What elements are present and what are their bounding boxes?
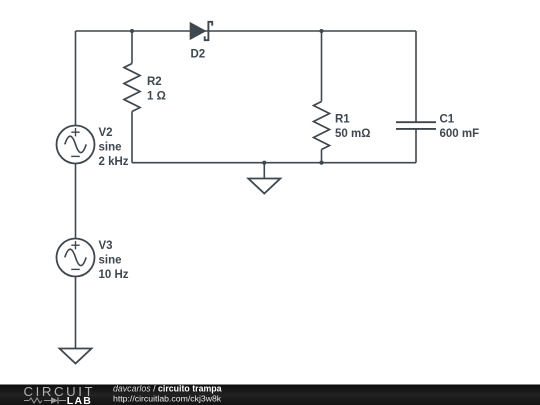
svg-text:http://circuitlab.com/ckj3w8k: http://circuitlab.com/ckj3w8k <box>113 394 222 404</box>
wire C1 top lead <box>415 31 417 122</box>
svg-text:600 mF: 600 mF <box>440 128 480 140</box>
svg-text:V2: V2 <box>99 127 113 139</box>
footer logo wire <box>24 400 66 402</box>
ground symbol on middle rail <box>248 179 280 194</box>
V2 sine symbol <box>65 136 86 152</box>
svg-text:50 mΩ: 50 mΩ <box>335 128 370 140</box>
svg-text:V3: V3 <box>99 240 113 252</box>
wire top rail from V2 branch to C1 branch <box>76 30 417 32</box>
svg-text:2 kHz: 2 kHz <box>99 156 129 168</box>
svg-text:R1: R1 <box>335 113 350 125</box>
resistor R2 body <box>124 64 140 112</box>
footer logo diode <box>51 397 58 403</box>
node junction R2 top <box>130 29 134 33</box>
wire C1 bottom lead <box>415 129 417 163</box>
voltage source V3 circle <box>57 239 95 277</box>
wire middle rail from R2 to C1 bottom <box>132 162 416 164</box>
diode D2 triangle <box>190 22 207 40</box>
svg-text:D2: D2 <box>191 49 206 61</box>
ground symbol below V3 <box>60 349 92 364</box>
wire R1 top lead <box>321 31 323 102</box>
V3 minus sign <box>71 268 80 270</box>
wire R2 top lead <box>131 31 133 64</box>
node junction ground stub <box>262 161 266 165</box>
svg-text:LAB: LAB <box>67 395 92 405</box>
V3 sine symbol <box>65 249 86 265</box>
node junction R1 bottom <box>319 161 323 165</box>
footer bar background <box>0 385 540 405</box>
V2 minus sign <box>71 155 80 157</box>
capacitor C1 plates <box>396 122 436 129</box>
wire left vertical from top rail to V2 plus terminal <box>75 31 77 126</box>
wire R2 bottom lead <box>131 112 133 163</box>
wire ground stub on middle rail <box>263 163 265 179</box>
svg-text:davcarlos / circuito trampa: davcarlos / circuito trampa <box>113 384 222 394</box>
wire V3 minus to ground <box>75 277 77 349</box>
svg-text:sine: sine <box>99 142 122 154</box>
svg-text:sine: sine <box>99 255 122 267</box>
svg-text:R2: R2 <box>147 76 162 88</box>
voltage source V2 circle <box>57 126 95 164</box>
wire between V2 minus and V3 plus <box>75 164 77 239</box>
resistor R1 body <box>314 102 330 150</box>
svg-text:10 Hz: 10 Hz <box>99 269 129 281</box>
V2 plus sign <box>71 128 79 136</box>
V3 plus sign <box>71 241 79 249</box>
node junction R1 top <box>319 29 323 33</box>
svg-text:C1: C1 <box>440 113 455 125</box>
footer logo resistor squiggle <box>29 398 42 403</box>
wire R1 bottom lead <box>321 150 323 163</box>
diode D2 schottky cathode bar <box>205 22 213 40</box>
svg-text:1 Ω: 1 Ω <box>147 91 166 103</box>
